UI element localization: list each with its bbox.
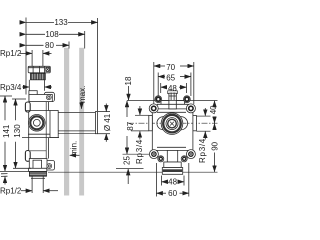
- side lobes: [157, 117, 170, 130]
- port stub right: [193, 116, 197, 131]
- Rp3/4 label arrows: [22, 86, 29, 88]
- port extension lines right: [196, 115, 210, 117]
- top screw boss left: [155, 96, 162, 103]
- Rp1/2 bottom label arrows: [21, 190, 32, 192]
- svg-text:Rp3/4: Rp3/4: [0, 83, 22, 92]
- svg-text:max.: max.: [78, 86, 87, 103]
- dim 18: [128, 86, 130, 100]
- body main side: [48, 102, 50, 111]
- clip pill lower: [25, 151, 30, 162]
- dia 41 dimension arrows: [105, 104, 107, 112]
- reference line 141 bottom: [0, 170, 31, 172]
- svg-text:141: 141: [2, 124, 11, 138]
- wall plaster bar min: [64, 48, 69, 196]
- dimension 48 bottom: [162, 181, 168, 183]
- port stub left: [149, 116, 153, 131]
- central circle assembly: [161, 113, 183, 135]
- svg-text:25: 25: [123, 156, 132, 165]
- bottom baseline: [48, 171, 218, 173]
- break marks bottom left: [1, 173, 8, 175]
- svg-text:70: 70: [166, 63, 175, 72]
- svg-text:48: 48: [168, 84, 177, 93]
- knurled thread top: [31, 73, 46, 79]
- corner ear bottom-right: [186, 150, 195, 159]
- thread stub bottom: [31, 176, 33, 193]
- svg-text:40: 40: [209, 105, 218, 114]
- left Rp3/4 chain arrows: [139, 106, 141, 115]
- extension lines 60 bottom: [155, 163, 157, 197]
- corner ear top-right: [186, 104, 195, 113]
- svg-text:80: 80: [45, 41, 54, 50]
- dimension 48 top: [161, 86, 167, 88]
- dimension 70: [154, 65, 165, 67]
- dim 40 right: [214, 101, 216, 108]
- right Rp3/4 chain arrows: [204, 108, 206, 116]
- body bottom edge: [156, 149, 190, 151]
- svg-text:Rp3/4: Rp3/4: [135, 139, 144, 164]
- min label arrow: [70, 154, 80, 156]
- svg-text:87: 87: [126, 121, 135, 130]
- dimension 60 bottom: [156, 192, 166, 194]
- extension line front x=97.6: [97, 18, 99, 111]
- body top plate: [44, 92, 54, 101]
- side boss circle: [29, 115, 46, 132]
- spigot cap: [95, 112, 97, 134]
- spigot root flange: [50, 111, 58, 138]
- neck lines: [28, 80, 30, 91]
- plate line 2: [157, 103, 189, 105]
- hex fitting top: [28, 66, 50, 73]
- foot ribbed base: [162, 168, 182, 175]
- svg-text:108: 108: [45, 30, 59, 39]
- svg-text:90: 90: [210, 141, 219, 150]
- bottom small boss right: [181, 156, 187, 162]
- dimension 108: [26, 33, 45, 35]
- svg-text:48: 48: [168, 178, 177, 187]
- extension lines 65: [157, 73, 159, 97]
- plate line 1: [161, 99, 185, 101]
- bottom hole line: [123, 153, 150, 155]
- Rp1/2 top bore extension lines: [31, 50, 33, 66]
- top plate hole: [46, 95, 51, 100]
- dimension 80: [26, 44, 44, 46]
- foot mid: [164, 162, 181, 168]
- corner ear bottom-left: [149, 150, 158, 159]
- extension lines 48 top: [160, 83, 162, 93]
- port centerline: [128, 122, 218, 124]
- collar: [29, 168, 47, 171]
- reference line 130 bottom: [13, 167, 31, 169]
- dim 87 left chain: [126, 101, 128, 117]
- dimension 65: [158, 76, 165, 78]
- svg-text:133: 133: [54, 18, 68, 27]
- bottom plate hole: [47, 164, 52, 169]
- svg-text:60: 60: [168, 189, 177, 198]
- svg-text:Rp1/2: Rp1/2: [0, 187, 22, 196]
- extension line 80: [68, 42, 70, 49]
- base line left: [116, 168, 144, 170]
- dia 41 extension lines: [97, 111, 110, 113]
- top bracket post: [168, 91, 178, 94]
- spigot tube lines: [58, 112, 95, 114]
- extension line rear plane x=26: [25, 18, 27, 95]
- knurled nut bottom: [29, 171, 46, 176]
- svg-text:Rp3/4: Rp3/4: [198, 138, 207, 163]
- body top edge: [156, 108, 190, 110]
- dimension 133: [26, 21, 54, 23]
- small up arrow bottom left: [4, 177, 6, 185]
- svg-text:min.: min.: [69, 141, 78, 156]
- dim 90 right: [214, 124, 216, 131]
- hole centerline top: [127, 100, 218, 102]
- foot neck: [167, 150, 177, 162]
- extension line 108: [84, 31, 86, 49]
- body bottom plate: [44, 161, 54, 171]
- body step lines: [28, 133, 50, 135]
- body rear edge: [28, 102, 30, 159]
- wall plaster bar max: [79, 48, 84, 196]
- clamp screw detail: [46, 67, 50, 71]
- bottom small boss left: [158, 156, 164, 162]
- corner ear top-left: [149, 104, 158, 113]
- dim 130 vertical: [12, 98, 26, 100]
- max label arrow: [81, 104, 83, 109]
- body side edges: [151, 109, 153, 150]
- svg-text:18: 18: [124, 76, 133, 85]
- clip pill upper: [25, 102, 30, 112]
- Rp1/2 top label arrows: [20, 52, 32, 54]
- extension lines 70: [153, 62, 155, 104]
- dim 25 arrows: [127, 169, 129, 184]
- extension lines 48 bottom: [161, 176, 163, 186]
- svg-text:65: 65: [166, 73, 175, 82]
- port extension lines left: [135, 114, 149, 116]
- svg-text:130: 130: [13, 124, 22, 138]
- svg-text:Ø 41: Ø 41: [103, 113, 112, 131]
- svg-text:Rp1/2: Rp1/2: [0, 49, 22, 58]
- top screw boss right: [184, 96, 191, 103]
- dim 141 vertical: [0, 95, 12, 97]
